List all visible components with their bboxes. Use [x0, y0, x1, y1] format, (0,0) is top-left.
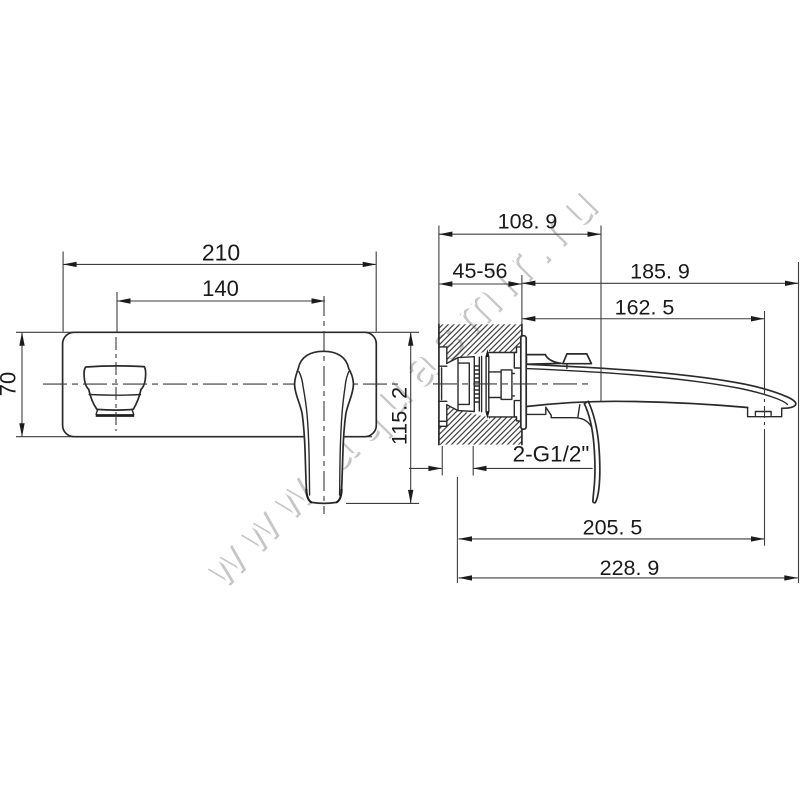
- wall left face: [438, 226, 440, 325]
- plate bottom extension line: [16, 436, 372, 438]
- dim 45-56: [439, 259, 522, 287]
- handle underbody (side): [526, 405, 593, 431]
- threaded tube: [489, 370, 515, 400]
- spout outlet (front view): [84, 366, 146, 416]
- plate top extension line: [16, 331, 419, 333]
- wall plate (front): [63, 332, 377, 436]
- svg-text:70: 70: [0, 372, 21, 396]
- valve cutout (white): [439, 347, 522, 426]
- dim 140: [117, 276, 325, 332]
- svg-text:228. 9: 228. 9: [600, 556, 660, 580]
- svg-text:210: 210: [202, 240, 240, 266]
- valve mid block: [458, 357, 474, 412]
- svg-text:140: 140: [202, 276, 239, 301]
- dim 185.9: [522, 260, 799, 584]
- dim 70: [0, 332, 25, 436]
- dim 210: [63, 240, 376, 332]
- svg-text:45-56: 45-56: [453, 259, 508, 283]
- spout (side view): [526, 364, 795, 408]
- handle (front view): [295, 351, 354, 503]
- spout outlet centerline: [115, 337, 117, 431]
- svg-text:185. 9: 185. 9: [630, 260, 690, 284]
- valve body: left tabs: [439, 347, 447, 426]
- flange washers at wall face: [514, 347, 521, 421]
- valve shoulders: [447, 358, 458, 411]
- svg-text:162. 5: 162. 5: [615, 296, 675, 320]
- svg-text:205. 5: 205. 5: [583, 516, 643, 540]
- dim 115.2: [346, 332, 419, 503]
- handle cap (side view): [526, 355, 561, 365]
- cartridge knurl column: [474, 357, 481, 412]
- aerator: [748, 408, 782, 417]
- watermark www.aquasmir.ru: [189, 168, 618, 601]
- wall right face / extension: [521, 275, 523, 336]
- dim 2-G1/2": [409, 442, 593, 584]
- side view centerline: [433, 383, 593, 385]
- mounting flange (dark): [485, 349, 489, 418]
- dim 162.5: [522, 296, 765, 546]
- dim 205.5: [459, 516, 765, 542]
- hole edges in wall: [489, 353, 517, 417]
- svg-text:2-G1/2": 2-G1/2": [513, 442, 590, 467]
- dim 108.9: [439, 210, 601, 402]
- svg-text:108. 9: 108. 9: [498, 210, 558, 234]
- wall hatching: [439, 324, 522, 444]
- svg-text:115. 2: 115. 2: [388, 387, 412, 445]
- horizontal centerline: [43, 383, 401, 385]
- lever (side view): [584, 401, 600, 503]
- trim plate (side): [521, 336, 526, 430]
- dim 228.9: [459, 556, 798, 581]
- valve inner cylinder hint: [441, 368, 443, 400]
- handle centerline: [323, 296, 325, 514]
